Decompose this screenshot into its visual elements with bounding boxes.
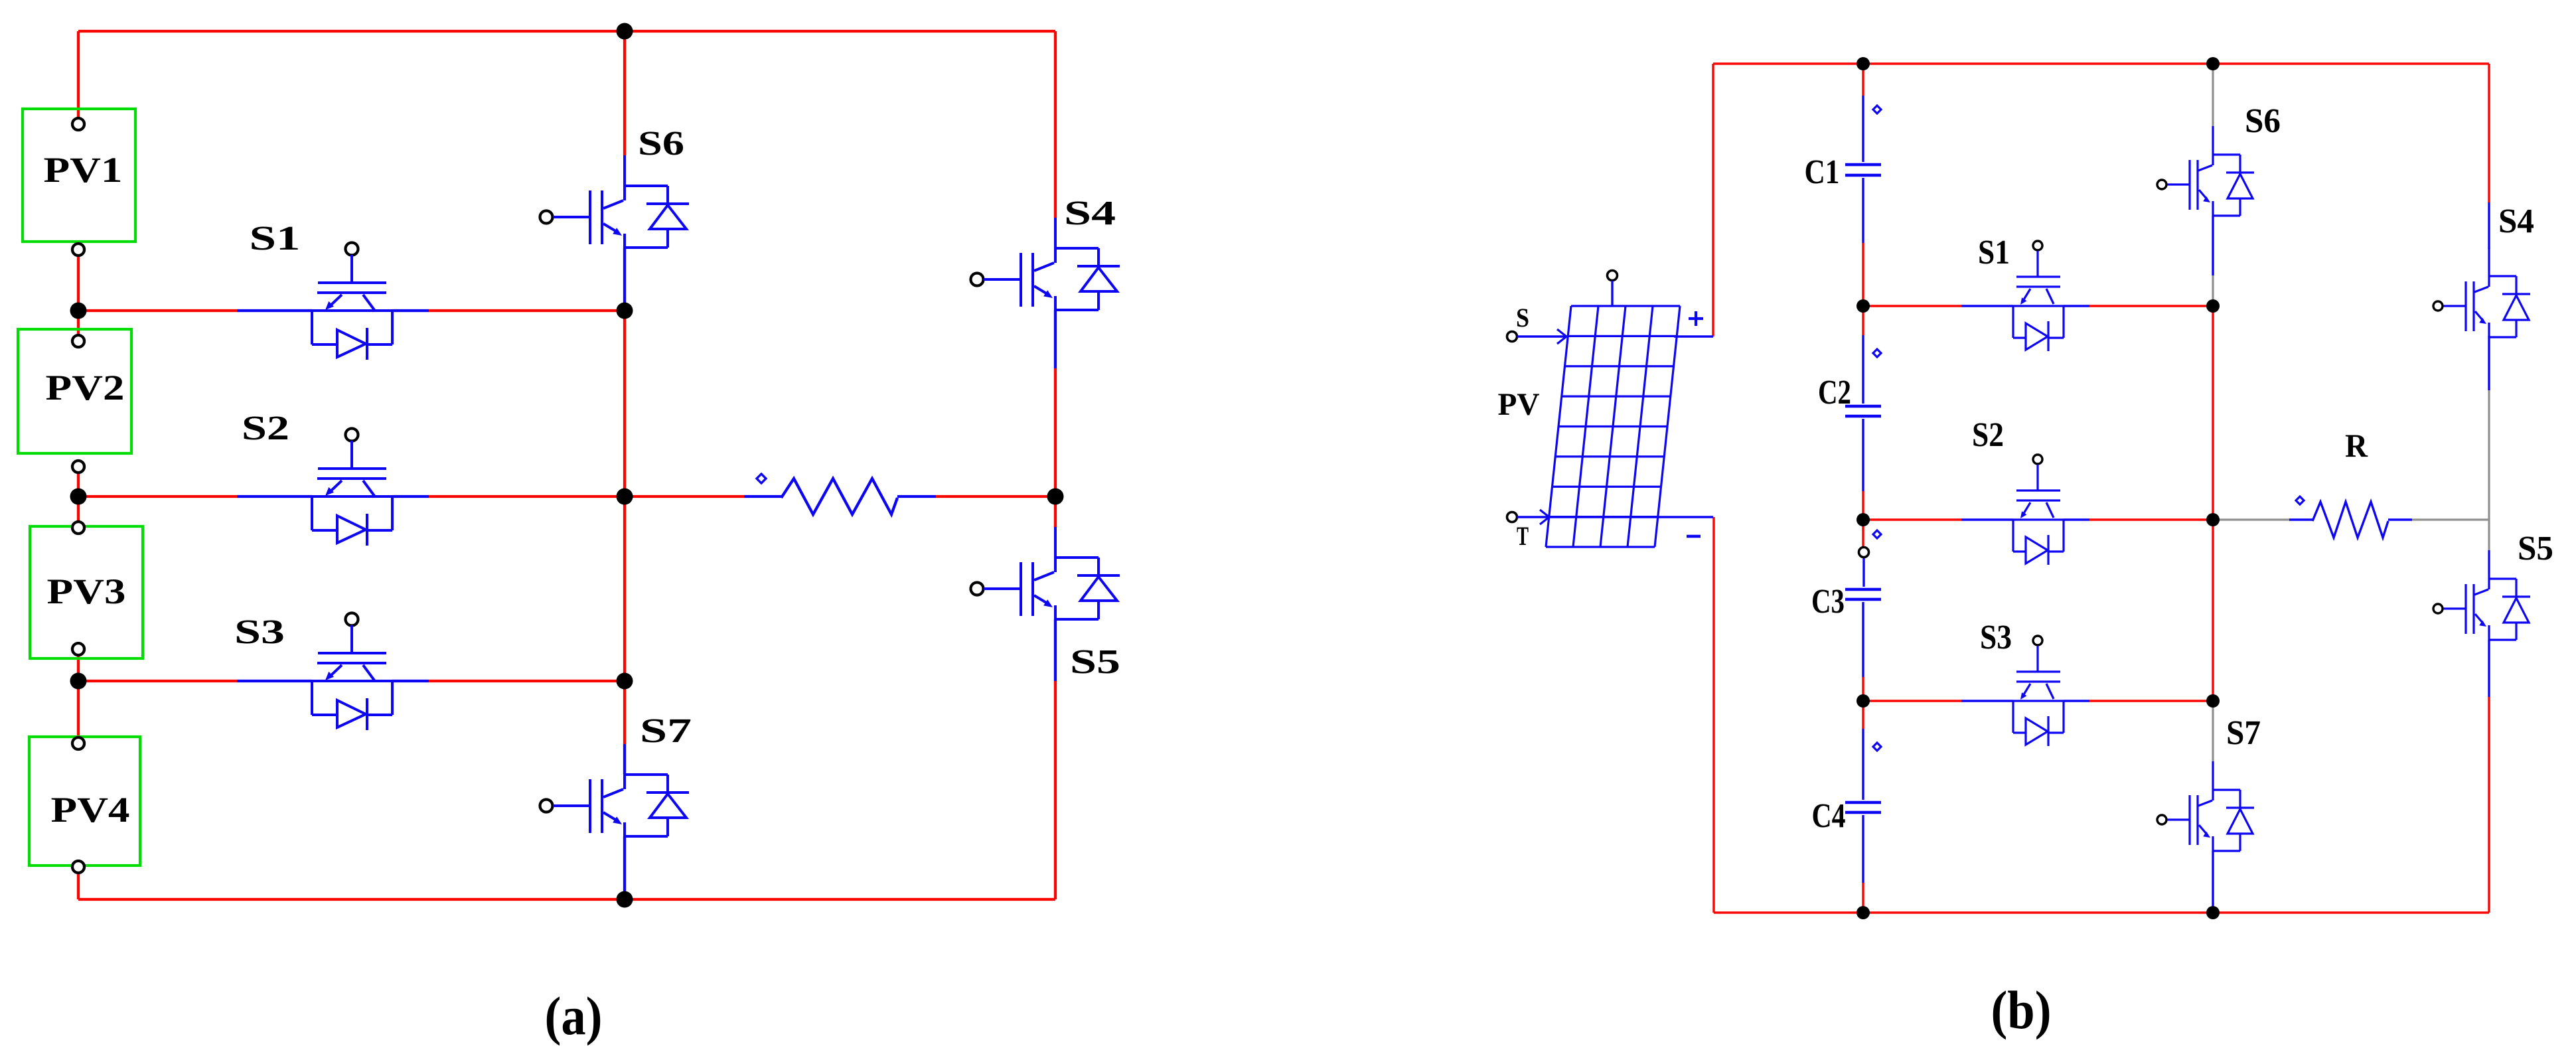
svg-text:S7: S7	[640, 712, 692, 750]
svg-text:S3: S3	[234, 613, 285, 651]
svg-text:T: T	[1517, 521, 1529, 551]
svg-text:S1: S1	[250, 220, 301, 258]
svg-text:PV2: PV2	[46, 368, 125, 408]
svg-text:C3: C3	[1811, 583, 1845, 621]
svg-text:R: R	[2345, 427, 2368, 464]
svg-text:PV3: PV3	[47, 571, 126, 611]
svg-text:C1: C1	[1805, 153, 1840, 191]
svg-text:C4: C4	[1812, 797, 1846, 835]
svg-text:S: S	[1516, 303, 1529, 333]
svg-text:S4: S4	[1064, 194, 1116, 232]
svg-text:(b): (b)	[1991, 980, 2052, 1040]
svg-text:S6: S6	[638, 125, 684, 163]
svg-text:S7: S7	[2226, 714, 2261, 752]
svg-text:S5: S5	[1070, 643, 1120, 681]
svg-text:S4: S4	[2498, 202, 2534, 240]
svg-text:S1: S1	[1978, 234, 2010, 271]
svg-text:PV4: PV4	[51, 790, 130, 830]
svg-text:S6: S6	[2245, 102, 2281, 140]
svg-text:S3: S3	[1980, 619, 2012, 656]
svg-text:S2: S2	[242, 410, 289, 447]
svg-text:PV1: PV1	[44, 150, 123, 190]
svg-text:C2: C2	[1818, 374, 1851, 412]
svg-text:S5: S5	[2518, 530, 2553, 567]
svg-text:S2: S2	[1972, 416, 2004, 454]
svg-text:(a): (a)	[545, 986, 603, 1046]
svg-text:PV: PV	[1498, 387, 1540, 422]
